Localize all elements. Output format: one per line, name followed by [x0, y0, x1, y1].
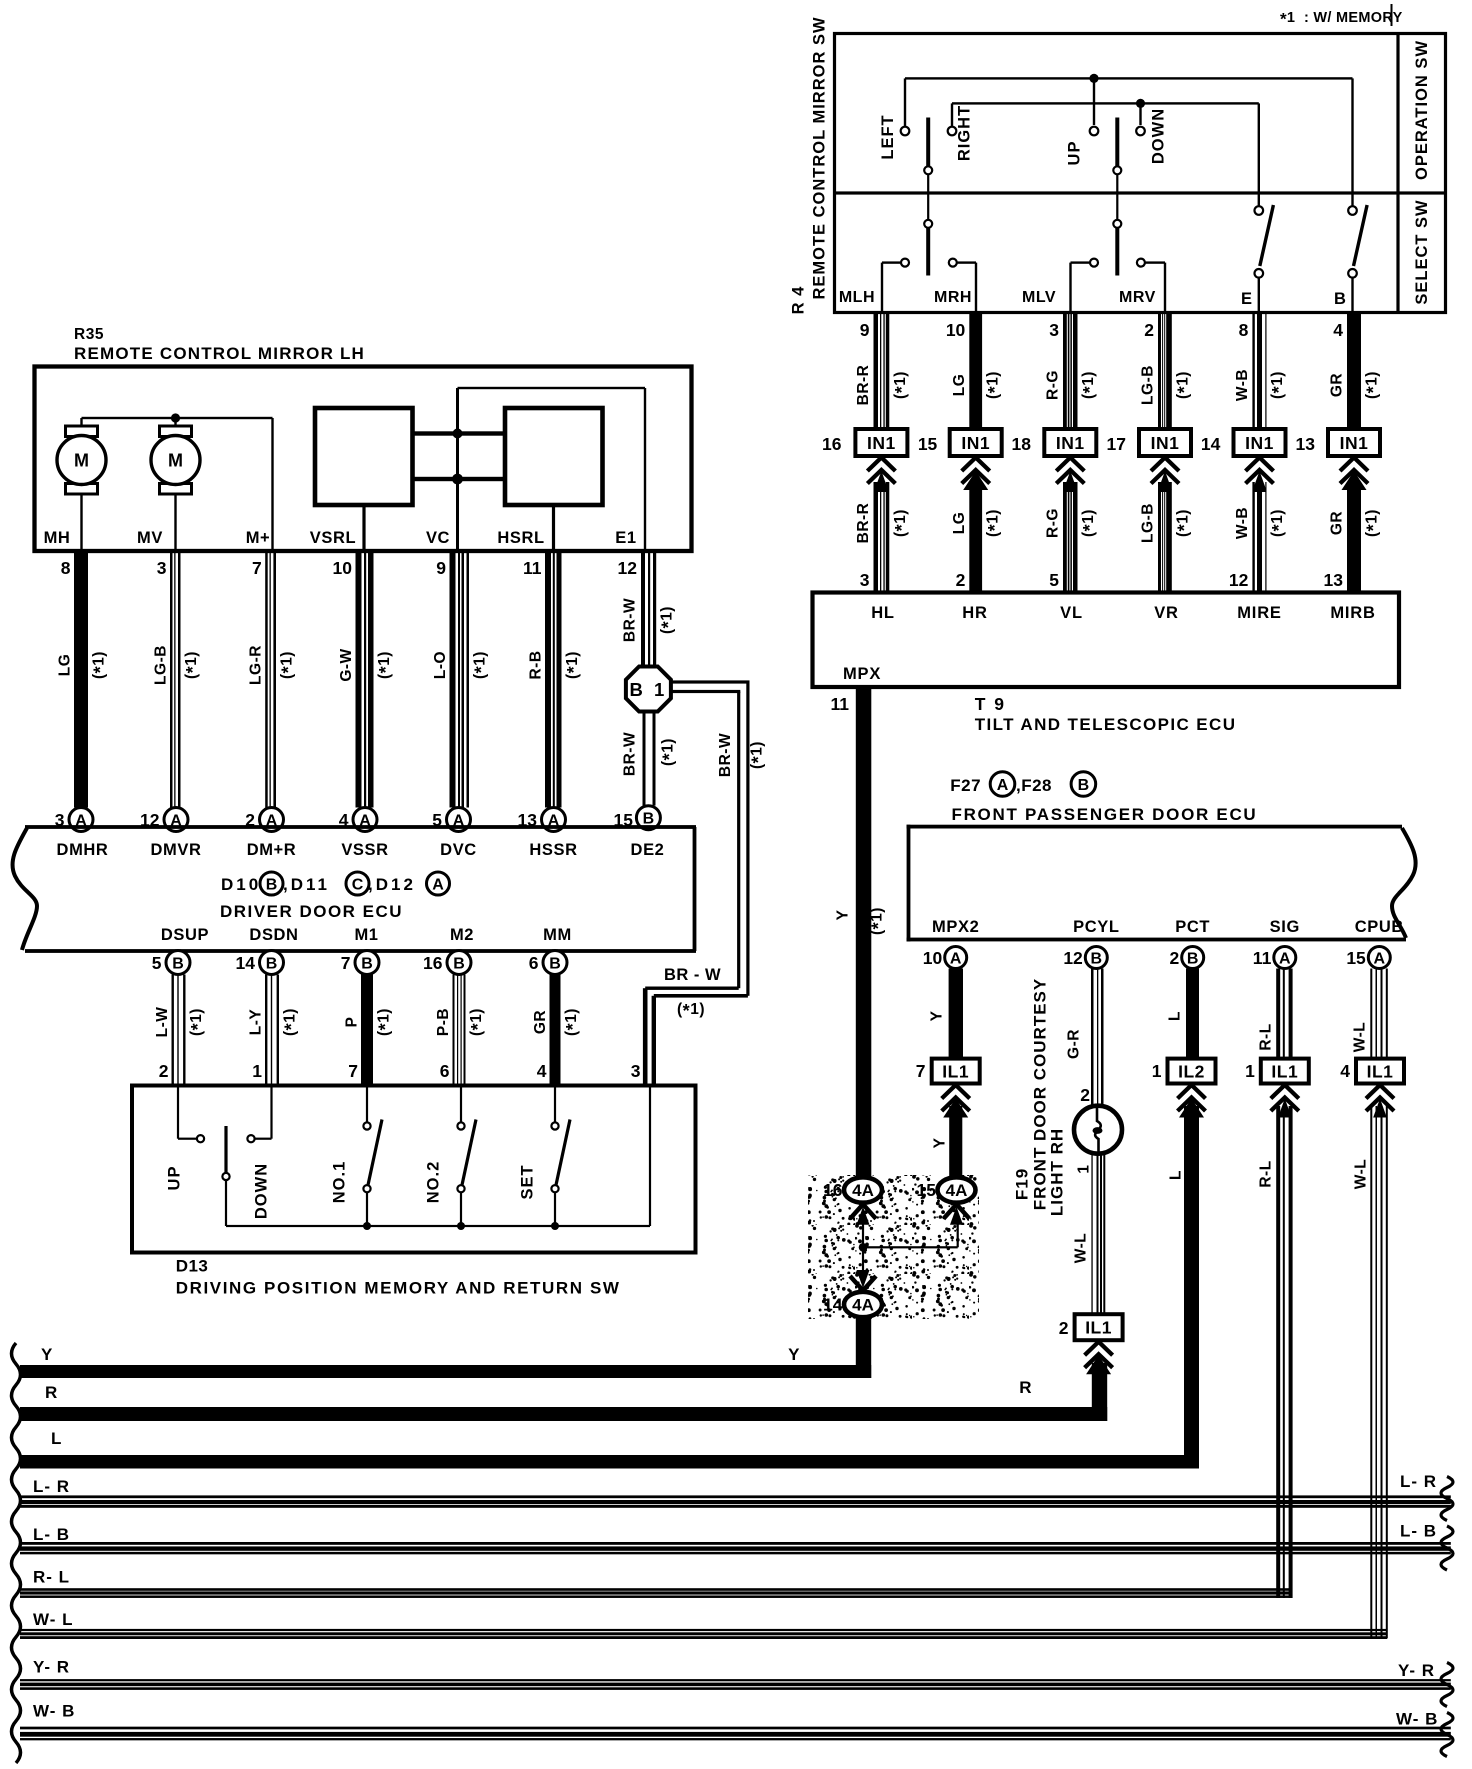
- svg-text:16: 16: [423, 953, 443, 973]
- svg-text:PCYL: PCYL: [1073, 918, 1119, 936]
- svg-text:LG-R: LG-R: [248, 645, 265, 685]
- svg-text:11: 11: [1253, 948, 1272, 968]
- svg-text:MLV: MLV: [1022, 289, 1056, 306]
- svg-text:W- B: W- B: [33, 1702, 75, 1721]
- svg-text:7: 7: [348, 1061, 358, 1081]
- svg-text:MIRB: MIRB: [1330, 604, 1375, 622]
- svg-text:VR: VR: [1154, 604, 1179, 622]
- svg-text:R-B: R-B: [528, 650, 545, 679]
- svg-text:15: 15: [918, 434, 938, 454]
- svg-text:T 9: T 9: [975, 694, 1006, 714]
- svg-text:P-B: P-B: [435, 1008, 452, 1036]
- svg-text:3: 3: [631, 1061, 641, 1081]
- svg-text:UP: UP: [166, 1166, 184, 1191]
- svg-text:MRH: MRH: [934, 289, 972, 306]
- svg-text:4A: 4A: [946, 1181, 968, 1200]
- svg-text:NO.2: NO.2: [425, 1161, 443, 1204]
- svg-text:IN1: IN1: [961, 433, 990, 453]
- svg-text:L: L: [1167, 1011, 1184, 1021]
- svg-text:(*1): (*1): [677, 1001, 705, 1021]
- svg-text:M: M: [74, 451, 89, 471]
- svg-text:BR-W: BR-W: [622, 732, 639, 776]
- svg-text:M+: M+: [246, 529, 271, 547]
- svg-text:DRIVING POSITION MEMORY AND RE: DRIVING POSITION MEMORY AND RETURN SW: [176, 1279, 621, 1298]
- svg-text:VSRL: VSRL: [310, 529, 356, 547]
- svg-text:L-O: L-O: [432, 651, 449, 679]
- svg-text:BR - W: BR - W: [664, 966, 721, 984]
- svg-text:9: 9: [436, 558, 446, 578]
- svg-text:B: B: [1187, 950, 1199, 967]
- svg-text:9: 9: [860, 320, 870, 340]
- svg-text:B: B: [1091, 950, 1103, 967]
- svg-text:R-L: R-L: [1258, 1023, 1275, 1050]
- svg-text:10: 10: [946, 320, 966, 340]
- svg-text:6: 6: [440, 1061, 450, 1081]
- svg-text:2: 2: [1144, 320, 1154, 340]
- svg-text:Y- R: Y- R: [1398, 1661, 1435, 1680]
- svg-text:13: 13: [1296, 434, 1316, 454]
- svg-text:2: 2: [1169, 948, 1179, 968]
- svg-text:VL: VL: [1060, 604, 1083, 622]
- svg-text:C: C: [352, 876, 364, 893]
- svg-text:E1: E1: [615, 529, 636, 547]
- svg-text:3: 3: [157, 558, 167, 578]
- svg-text:1: 1: [1152, 1061, 1162, 1081]
- svg-text:1: 1: [1245, 1061, 1255, 1081]
- svg-text:W- B: W- B: [1396, 1710, 1438, 1729]
- svg-text:5: 5: [1049, 570, 1059, 590]
- svg-text:A: A: [997, 777, 1009, 794]
- svg-text:IL1: IL1: [1085, 1318, 1112, 1338]
- svg-text:LEFT: LEFT: [879, 114, 897, 159]
- svg-text:GR: GR: [1329, 511, 1346, 535]
- svg-text:W-B: W-B: [1234, 369, 1251, 401]
- svg-text:2: 2: [956, 570, 966, 590]
- svg-text:L- B: L- B: [1400, 1522, 1437, 1541]
- svg-text:REMOTE CONTROL MIRROR SW: REMOTE CONTROL MIRROR SW: [811, 16, 829, 299]
- svg-text:DOWN: DOWN: [1150, 108, 1168, 164]
- svg-text:IN1: IN1: [1245, 433, 1274, 453]
- svg-text:DSUP: DSUP: [161, 926, 209, 944]
- svg-text:B: B: [172, 955, 184, 972]
- svg-text:HR: HR: [962, 604, 987, 622]
- svg-text:12: 12: [618, 558, 638, 578]
- svg-text:18: 18: [1012, 434, 1032, 454]
- svg-text:BR-W: BR-W: [622, 598, 639, 642]
- svg-text:6: 6: [529, 953, 539, 973]
- svg-text:FRONT PASSENGER DOOR ECU: FRONT PASSENGER DOOR ECU: [952, 805, 1258, 824]
- svg-text:DE2: DE2: [631, 841, 665, 859]
- svg-text:2: 2: [1080, 1085, 1090, 1105]
- svg-text:IN1: IN1: [1056, 433, 1085, 453]
- svg-text:5: 5: [152, 953, 162, 973]
- svg-text:,D11: ,D11: [283, 875, 330, 894]
- svg-text:W-B: W-B: [1234, 507, 1251, 539]
- svg-text:12: 12: [1229, 570, 1249, 590]
- svg-text:,D12: ,D12: [368, 875, 416, 894]
- svg-text:7: 7: [916, 1061, 926, 1081]
- svg-text:L-W: L-W: [154, 1007, 171, 1038]
- svg-text:R35: R35: [74, 326, 104, 343]
- svg-text:1: 1: [252, 1061, 262, 1081]
- svg-text:DRIVER DOOR ECU: DRIVER DOOR ECU: [220, 902, 403, 921]
- svg-text:MRV: MRV: [1119, 289, 1156, 306]
- svg-text:L-Y: L-Y: [248, 1009, 265, 1036]
- svg-text:R-G: R-G: [1045, 370, 1062, 400]
- svg-text:R-G: R-G: [1045, 508, 1062, 538]
- svg-text:B: B: [266, 955, 278, 972]
- svg-text:8: 8: [1239, 320, 1249, 340]
- svg-text:R: R: [1019, 1378, 1032, 1397]
- svg-text:D13: D13: [176, 1257, 209, 1276]
- svg-text:MPX: MPX: [843, 665, 881, 683]
- svg-text:D10: D10: [221, 875, 261, 894]
- svg-text:W-L: W-L: [1352, 1022, 1369, 1052]
- svg-text:Y: Y: [835, 909, 852, 920]
- svg-text:R: R: [45, 1383, 58, 1402]
- svg-text:PCT: PCT: [1175, 918, 1210, 936]
- svg-text:Y: Y: [932, 1137, 949, 1148]
- svg-text:14: 14: [823, 1295, 843, 1315]
- svg-text:IL1: IL1: [1271, 1061, 1298, 1081]
- svg-text:TILT AND TELESCOPIC ECU: TILT AND TELESCOPIC ECU: [975, 715, 1237, 734]
- svg-text:F27: F27: [950, 776, 981, 795]
- svg-text:2: 2: [159, 1061, 169, 1081]
- svg-text:R-L: R-L: [1258, 1160, 1275, 1187]
- svg-text:4A: 4A: [852, 1296, 874, 1315]
- svg-text:Y- R: Y- R: [33, 1658, 70, 1677]
- svg-text:15: 15: [1346, 948, 1366, 968]
- svg-text:DSDN: DSDN: [249, 926, 298, 944]
- svg-text:LG: LG: [951, 374, 968, 397]
- svg-text:M: M: [168, 451, 183, 471]
- svg-text:7: 7: [341, 953, 351, 973]
- svg-text:E: E: [1241, 290, 1253, 308]
- svg-text:2: 2: [1059, 1318, 1069, 1338]
- svg-text:14: 14: [236, 953, 256, 973]
- svg-text:*1 : W/ MEMORY: *1 : W/ MEMORY: [1280, 10, 1403, 29]
- svg-text:IL2: IL2: [1178, 1061, 1205, 1081]
- svg-text:15: 15: [917, 1180, 937, 1200]
- svg-text:RIGHT: RIGHT: [956, 105, 974, 161]
- svg-text:MH: MH: [44, 529, 71, 547]
- svg-text:IN1: IN1: [1340, 433, 1369, 453]
- svg-text:IN1: IN1: [867, 433, 896, 453]
- svg-text:17: 17: [1107, 434, 1126, 454]
- svg-text:16: 16: [823, 1180, 843, 1200]
- svg-text:A: A: [950, 950, 962, 967]
- svg-text:LG-B: LG-B: [153, 645, 170, 685]
- svg-text:12: 12: [1063, 948, 1083, 968]
- svg-text:A: A: [1374, 950, 1386, 967]
- svg-text:IN1: IN1: [1151, 433, 1180, 453]
- svg-text:REMOTE CONTROL MIRROR LH: REMOTE CONTROL MIRROR LH: [74, 344, 365, 363]
- svg-text:SET: SET: [519, 1164, 537, 1199]
- svg-text:B: B: [1078, 777, 1090, 794]
- svg-text:SELECT SW: SELECT SW: [1413, 199, 1431, 304]
- svg-text:CPUB: CPUB: [1355, 918, 1404, 936]
- svg-text:B: B: [1334, 290, 1346, 308]
- svg-text:MV: MV: [137, 529, 163, 547]
- svg-text:A: A: [1279, 950, 1291, 967]
- svg-text:8: 8: [61, 558, 71, 578]
- svg-text:W- L: W- L: [33, 1610, 73, 1629]
- svg-text:4: 4: [1340, 1061, 1350, 1081]
- svg-text:HSRL: HSRL: [497, 529, 544, 547]
- svg-text:G-R: G-R: [1066, 1029, 1083, 1059]
- svg-text:W-L: W-L: [1353, 1159, 1370, 1189]
- svg-text:VSSR: VSSR: [341, 841, 388, 859]
- svg-text:GR: GR: [1329, 373, 1346, 397]
- svg-text:B: B: [361, 955, 373, 972]
- svg-text:BR-R: BR-R: [855, 365, 872, 406]
- svg-text:A: A: [432, 876, 444, 893]
- svg-text:MM: MM: [543, 926, 572, 944]
- svg-text:VC: VC: [426, 529, 450, 547]
- svg-text:NO.1: NO.1: [331, 1161, 349, 1204]
- svg-text:OPERATION SW: OPERATION SW: [1413, 40, 1431, 180]
- svg-text:11: 11: [523, 558, 542, 578]
- svg-text:B: B: [266, 876, 278, 893]
- svg-text:DMVR: DMVR: [151, 841, 202, 859]
- svg-text:Y: Y: [41, 1345, 53, 1364]
- svg-text:B: B: [549, 955, 561, 972]
- svg-text:L- B: L- B: [33, 1525, 70, 1544]
- svg-text:DVC: DVC: [440, 841, 477, 859]
- svg-text:M1: M1: [354, 926, 378, 944]
- svg-text:SIG: SIG: [1270, 918, 1300, 936]
- svg-text:MIRE: MIRE: [1237, 604, 1281, 622]
- svg-text:11: 11: [831, 694, 850, 714]
- svg-text:G-W: G-W: [338, 648, 355, 681]
- svg-text:10: 10: [333, 558, 353, 578]
- svg-text:DM+R: DM+R: [247, 841, 297, 859]
- svg-text:W-L: W-L: [1073, 1233, 1090, 1263]
- svg-text:HL: HL: [871, 604, 895, 622]
- svg-text:L- R: L- R: [1400, 1472, 1437, 1491]
- svg-text:LG-B: LG-B: [1140, 503, 1157, 543]
- svg-text:4: 4: [537, 1061, 547, 1081]
- svg-text:F19: F19: [1013, 1168, 1032, 1200]
- svg-text:L: L: [51, 1429, 62, 1448]
- svg-text:,F28: ,F28: [1016, 776, 1052, 795]
- svg-text:DMHR: DMHR: [57, 841, 109, 859]
- svg-text:MPX2: MPX2: [932, 918, 979, 936]
- svg-text:BR-R: BR-R: [855, 503, 872, 544]
- svg-text:B: B: [453, 955, 465, 972]
- svg-text:R- L: R- L: [33, 1568, 70, 1587]
- svg-text:MLH: MLH: [839, 289, 875, 306]
- svg-text:LG: LG: [57, 654, 74, 677]
- svg-text:LG: LG: [951, 512, 968, 535]
- svg-text:LIGHT RH: LIGHT RH: [1048, 1128, 1067, 1216]
- svg-text:B: B: [643, 810, 655, 827]
- svg-text:Y: Y: [929, 1010, 946, 1021]
- svg-text:10: 10: [923, 948, 943, 968]
- svg-text:IL1: IL1: [942, 1061, 969, 1081]
- svg-text:LG-B: LG-B: [1140, 365, 1157, 405]
- svg-text:HSSR: HSSR: [529, 841, 577, 859]
- svg-text:3: 3: [1049, 320, 1059, 340]
- svg-text:Y: Y: [788, 1345, 800, 1364]
- svg-text:L: L: [1168, 1170, 1185, 1180]
- svg-text:13: 13: [1324, 570, 1344, 590]
- svg-text:GR: GR: [532, 1010, 549, 1034]
- svg-text:M2: M2: [450, 926, 474, 944]
- svg-text:P: P: [344, 1017, 361, 1028]
- svg-text:1: 1: [1076, 1164, 1093, 1173]
- svg-text:4A: 4A: [852, 1181, 874, 1200]
- svg-text:IL1: IL1: [1367, 1061, 1394, 1081]
- svg-text:4: 4: [1333, 320, 1343, 340]
- svg-text:7: 7: [252, 558, 262, 578]
- svg-text:14: 14: [1201, 434, 1221, 454]
- svg-text:B 1: B 1: [630, 679, 668, 700]
- svg-text:BR-W: BR-W: [717, 733, 734, 777]
- svg-text:L- R: L- R: [33, 1477, 70, 1496]
- svg-text:3: 3: [860, 570, 870, 590]
- svg-text:DOWN: DOWN: [253, 1163, 271, 1219]
- svg-text:R 4: R 4: [790, 286, 808, 315]
- svg-text:UP: UP: [1066, 141, 1084, 166]
- svg-text:16: 16: [822, 434, 842, 454]
